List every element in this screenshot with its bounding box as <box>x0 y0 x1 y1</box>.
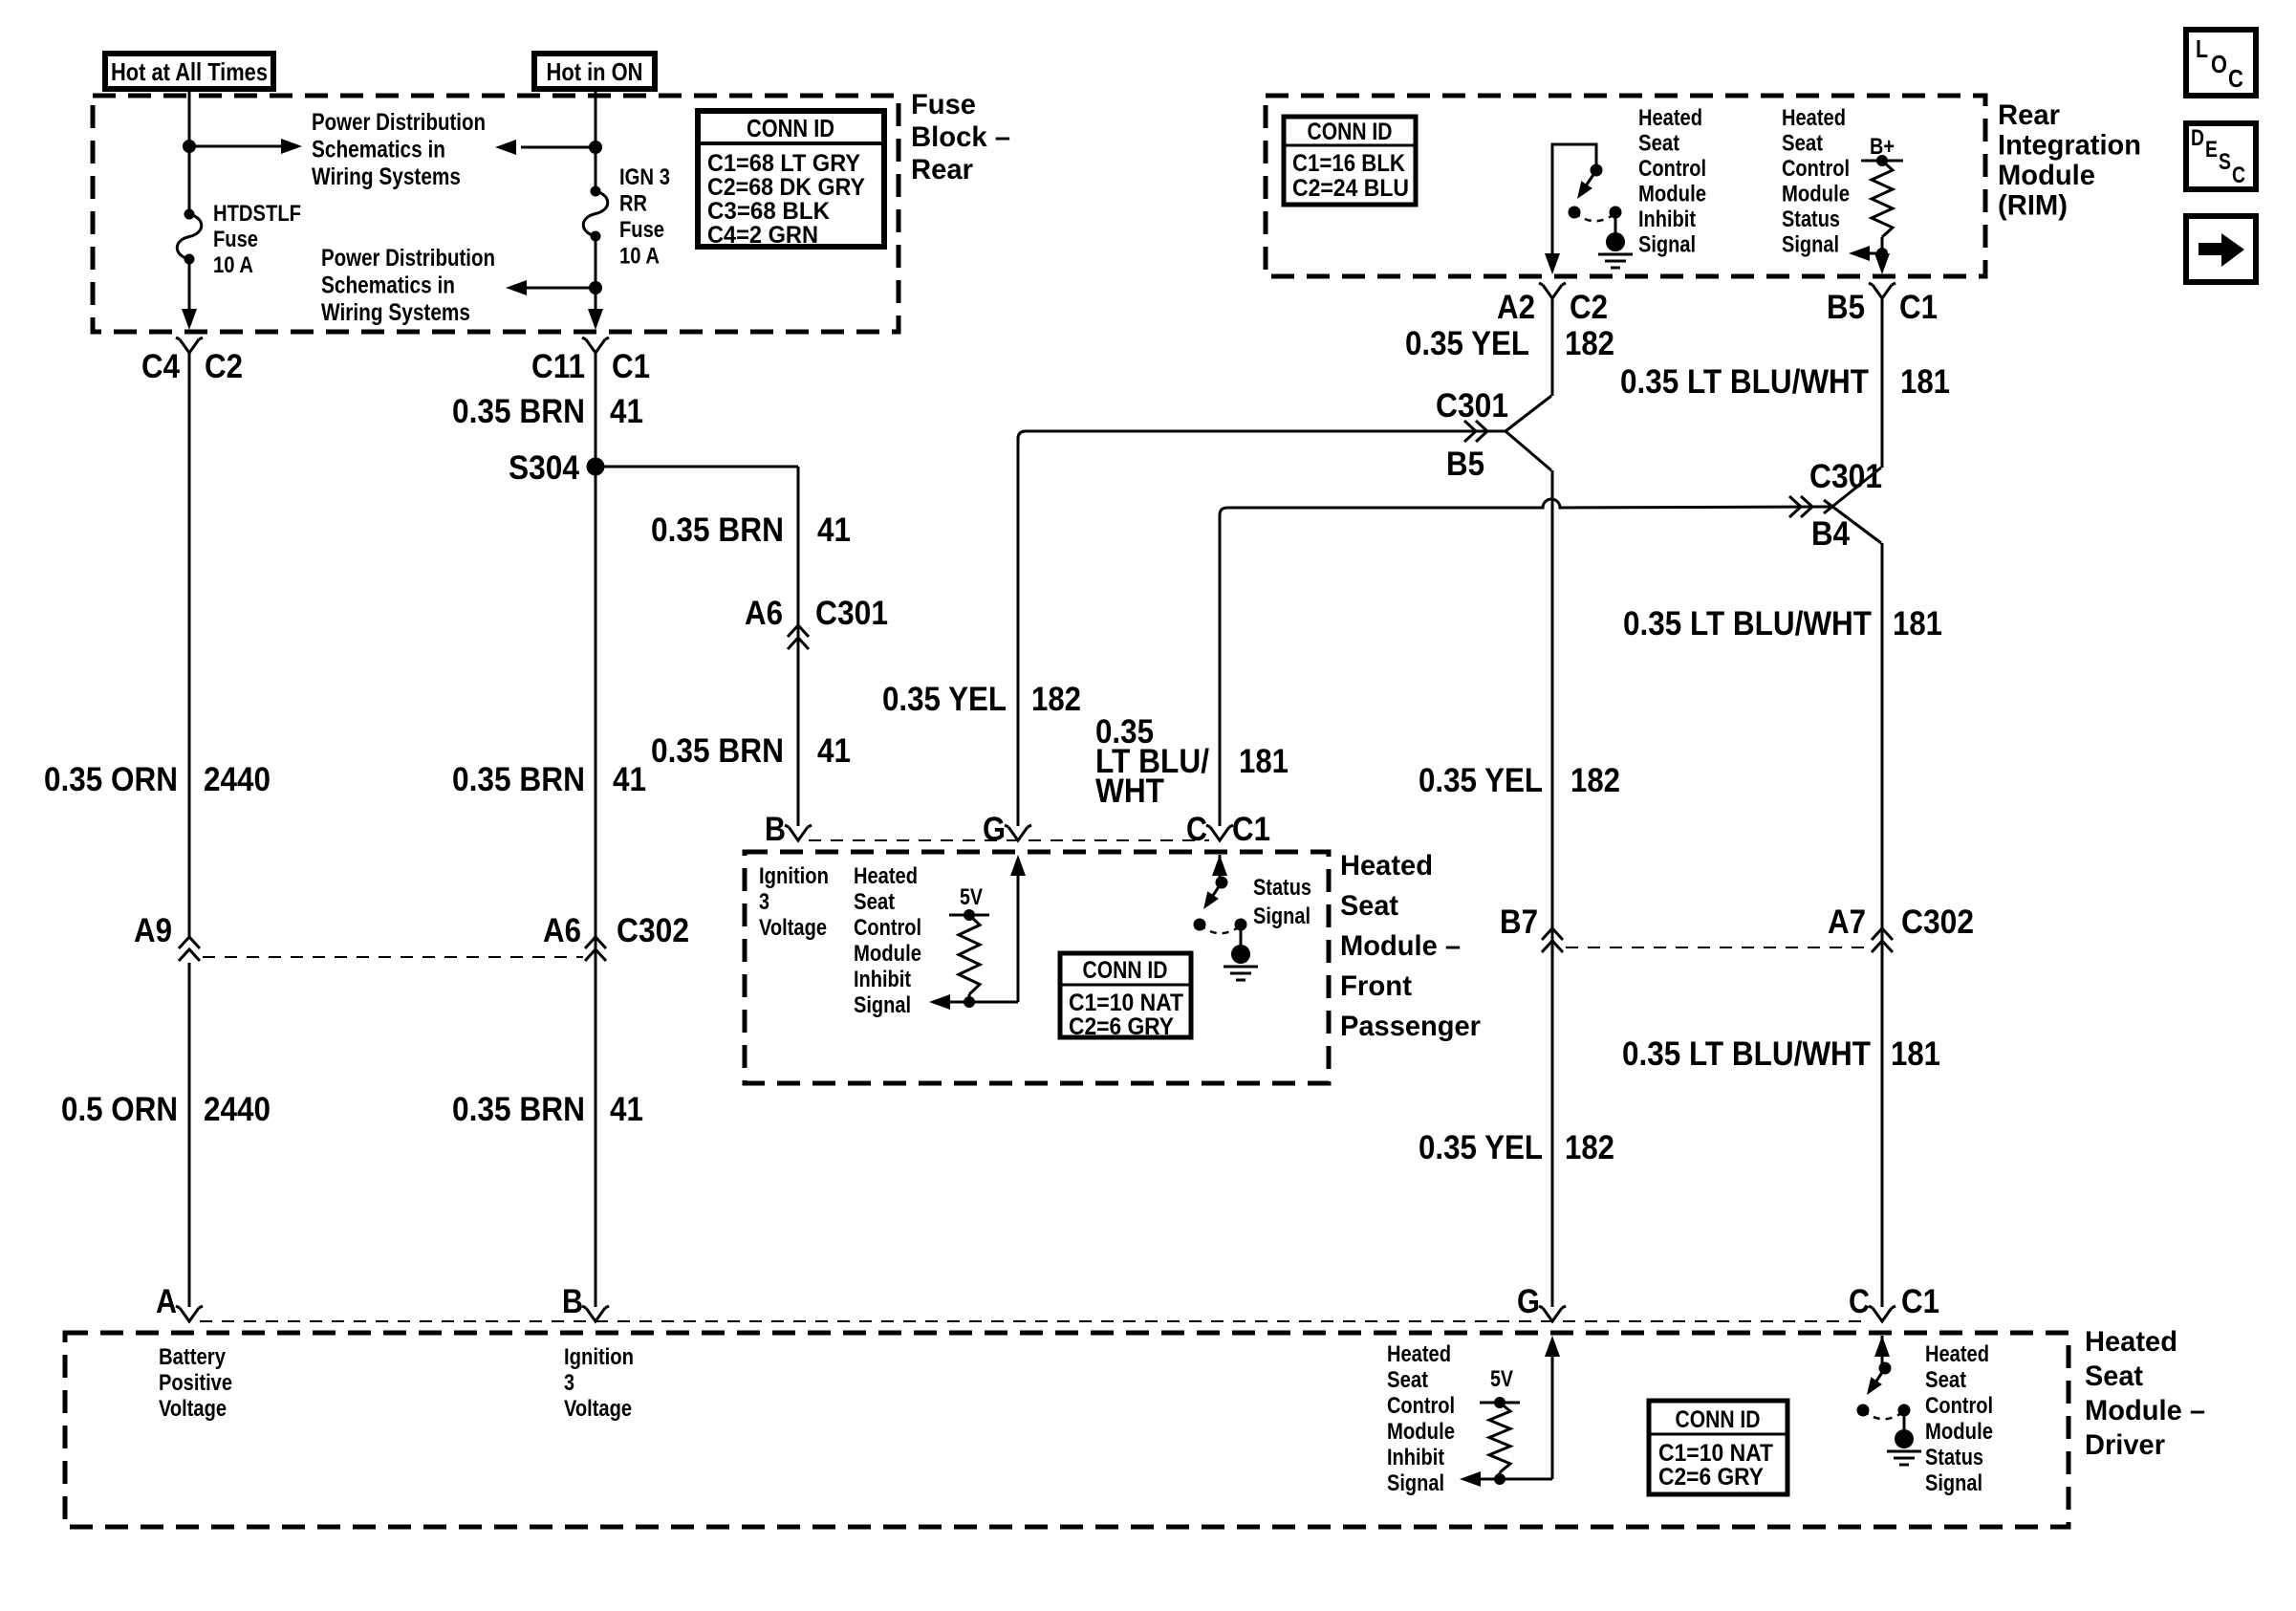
svg-text:C2=6 GRY: C2=6 GRY <box>1069 1013 1174 1040</box>
wire: ignition feed below fuse <box>595 236 597 316</box>
switch throw arc <box>1200 925 1241 933</box>
svg-text:C4: C4 <box>141 348 180 385</box>
passenger pin G <box>1008 827 1028 840</box>
wire: ignition feed from Hot in ON <box>595 89 597 191</box>
svg-text:C1: C1 <box>1899 289 1938 326</box>
svg-text:Control: Control <box>1782 156 1850 182</box>
svg-text:CONN ID: CONN ID <box>1083 957 1168 984</box>
svg-text:B: B <box>765 811 786 848</box>
svg-text:Power Distribution: Power Distribution <box>312 109 486 136</box>
svg-text:A6: A6 <box>543 912 581 949</box>
connector tie line C302 (left) <box>203 956 583 958</box>
junction node on ignition feed (lower) <box>589 281 602 294</box>
connector table CONN ID (RIM) <box>1284 117 1416 205</box>
svg-text:C2=6 GRY: C2=6 GRY <box>1658 1464 1764 1491</box>
svg-text:Positive: Positive <box>159 1370 232 1396</box>
wire 181 LT BLU/WHT: RIM C1 down to C301 B4 fan <box>1881 297 1884 468</box>
svg-text:C2=68 DK GRY: C2=68 DK GRY <box>707 174 865 201</box>
wire 181 LT BLU/WHT: C301 B4 down to driver pin C <box>1881 543 1884 1307</box>
ground (RIM inhibit) <box>1606 232 1625 251</box>
svg-text:41: 41 <box>610 393 643 430</box>
svg-text:WHT: WHT <box>1095 773 1164 810</box>
svg-text:(RIM): (RIM) <box>1998 190 2068 222</box>
svg-text:Module: Module <box>854 941 921 967</box>
svg-text:0.35 BRN: 0.35 BRN <box>452 393 585 430</box>
svg-text:Module: Module <box>1638 182 1706 207</box>
svg-text:CONN ID: CONN ID <box>1676 1406 1761 1433</box>
svg-text:0.35 YEL: 0.35 YEL <box>1405 325 1529 362</box>
svg-text:0.35 BRN: 0.35 BRN <box>452 761 585 798</box>
svg-text:S304: S304 <box>509 449 579 487</box>
svg-text:Module: Module <box>1998 160 2095 191</box>
svg-text:Wiring Systems: Wiring Systems <box>321 299 470 326</box>
svg-text:Signal: Signal <box>854 992 911 1018</box>
svg-text:181: 181 <box>1893 605 1942 642</box>
svg-text:Heated: Heated <box>1387 1341 1451 1367</box>
connector tie line C302 (right) <box>1566 947 1868 948</box>
svg-text:Fuse: Fuse <box>911 89 976 120</box>
svg-text:Seat: Seat <box>2085 1361 2143 1392</box>
svg-text:181: 181 <box>1239 743 1289 780</box>
connector pin A2/C2 (RIM) <box>1543 285 1562 298</box>
svg-text:Power Distribution: Power Distribution <box>321 245 495 272</box>
svg-text:C3=68 BLK: C3=68 BLK <box>707 198 830 225</box>
svg-text:C: C <box>1849 1283 1870 1320</box>
svg-text:41: 41 <box>817 512 851 549</box>
svg-text:0.35 BRN: 0.35 BRN <box>651 732 784 770</box>
svg-text:Status: Status <box>1782 207 1840 232</box>
svg-text:RR: RR <box>619 191 647 217</box>
inhibit switch (RIM) <box>1552 144 1596 260</box>
fuse HTDSTLF 10 A <box>184 209 195 220</box>
svg-text:Front: Front <box>1340 970 1412 1002</box>
status signal arrow (left) <box>1865 252 1882 255</box>
wire: inhibit node to pin G arrow <box>1017 868 1020 1002</box>
wire: power distribution reference arrow (right) <box>189 145 283 148</box>
fuse IGN 3 RR 10 A <box>591 186 601 197</box>
driver pin C / C1 <box>1873 1308 1892 1321</box>
svg-text:0.35 BRN: 0.35 BRN <box>452 1091 585 1128</box>
connector tie line (driver module top) <box>200 1320 1870 1322</box>
svg-text:L: L <box>2196 34 2208 63</box>
svg-text:Seat: Seat <box>1782 131 1823 157</box>
svg-text:Inhibit: Inhibit <box>854 967 911 992</box>
svg-text:C1: C1 <box>1901 1283 1939 1320</box>
svg-text:Status: Status <box>1253 875 1311 901</box>
svg-text:Hot in ON: Hot in ON <box>547 57 643 86</box>
connector pin C4/C2 (fuse block output) <box>180 339 199 353</box>
connector table CONN ID (passenger module) <box>1060 953 1191 1037</box>
svg-text:Heated: Heated <box>1925 1341 1989 1367</box>
svg-text:Module: Module <box>1387 1419 1455 1445</box>
driver pin G <box>1543 1308 1562 1321</box>
svg-text:B4: B4 <box>1811 515 1850 553</box>
svg-text:Block –: Block – <box>911 121 1010 153</box>
svg-text:3: 3 <box>759 889 769 915</box>
svg-text:182: 182 <box>1570 762 1620 799</box>
wire 41 BRN: fuse block C1 to S304 <box>595 352 597 1307</box>
driver pin A <box>180 1308 199 1321</box>
svg-text:Module –: Module – <box>1340 930 1461 962</box>
svg-text:10 A: 10 A <box>619 244 660 270</box>
svg-text:Control: Control <box>1638 156 1706 182</box>
svg-text:A2: A2 <box>1497 289 1535 326</box>
wire 182 YEL: passenger pin G up and over to C301 <box>1018 431 1505 826</box>
LOC icon box <box>2186 30 2256 96</box>
heated seat module - driver box <box>65 1333 2069 1527</box>
svg-text:41: 41 <box>613 761 646 798</box>
svg-text:Voltage: Voltage <box>564 1396 632 1422</box>
svg-text:181: 181 <box>1900 363 1950 401</box>
svg-text:S: S <box>2219 149 2231 175</box>
inline connector C302 pin A9/A6 tie <box>179 937 200 948</box>
svg-text:Schematics in: Schematics in <box>312 137 445 163</box>
svg-text:182: 182 <box>1565 325 1614 362</box>
svg-text:2440: 2440 <box>204 761 271 798</box>
inhibit signal arrow (left) <box>946 1001 1018 1004</box>
svg-text:B5: B5 <box>1446 446 1484 483</box>
svg-text:O: O <box>2211 50 2227 78</box>
svg-text:Seat: Seat <box>854 889 895 915</box>
svg-text:Inhibit: Inhibit <box>1638 207 1696 232</box>
svg-text:CONN ID: CONN ID <box>1308 119 1393 145</box>
svg-text:Seat: Seat <box>1925 1367 1966 1393</box>
svg-text:C1: C1 <box>1232 811 1270 848</box>
svg-text:Inhibit: Inhibit <box>1387 1445 1444 1470</box>
svg-text:Control: Control <box>1925 1393 1993 1419</box>
svg-text:C4=2 GRN: C4=2 GRN <box>707 222 818 249</box>
svg-text:Rear: Rear <box>1998 99 2060 131</box>
svg-text:B: B <box>562 1283 583 1320</box>
svg-text:Signal: Signal <box>1782 232 1839 258</box>
svg-text:Hot at All Times: Hot at All Times <box>111 57 268 86</box>
svg-text:C1=10 NAT: C1=10 NAT <box>1069 990 1183 1016</box>
svg-text:Module –: Module – <box>2085 1395 2205 1426</box>
svg-text:Fuse: Fuse <box>619 217 664 243</box>
svg-text:Driver: Driver <box>2085 1429 2165 1461</box>
rear integration module box <box>1266 96 1985 276</box>
svg-text:Control: Control <box>1387 1393 1455 1419</box>
ground (driver status) <box>1895 1429 1914 1448</box>
svg-text:Schematics in: Schematics in <box>321 272 455 299</box>
svg-text:0.5 ORN: 0.5 ORN <box>61 1091 178 1128</box>
svg-text:B5: B5 <box>1827 289 1865 326</box>
driver pin B <box>586 1308 605 1321</box>
svg-text:HTDSTLF: HTDSTLF <box>213 201 301 227</box>
inline connector C301 pin B4 (male chevrons) <box>1801 496 1812 517</box>
node label box "Hot in ON" <box>534 54 655 89</box>
inline connector C302 pin A7 <box>1872 928 1893 940</box>
forward arrow icon box <box>2186 216 2256 282</box>
svg-text:0.35 LT BLU/WHT: 0.35 LT BLU/WHT <box>1623 605 1872 642</box>
svg-text:Voltage: Voltage <box>759 915 827 941</box>
wire: power distribution reference arrow (left, lower) <box>525 287 596 290</box>
wire: battery feed to connector C2 <box>188 259 191 316</box>
connector pin C11/C1 (fuse block output) <box>586 339 605 353</box>
svg-text:Ignition: Ignition <box>759 863 829 889</box>
svg-text:C302: C302 <box>617 912 689 949</box>
svg-text:Passenger: Passenger <box>1340 1011 1481 1042</box>
svg-text:0.35 BRN: 0.35 BRN <box>651 512 784 549</box>
svg-text:10 A: 10 A <box>213 252 253 278</box>
svg-text:C: C <box>2228 64 2243 93</box>
node under resistor (driver) <box>1494 1473 1505 1485</box>
inline connector C301 pin B5 (male chevrons) <box>1476 421 1487 442</box>
svg-text:D: D <box>2191 125 2204 151</box>
svg-text:Ignition: Ignition <box>564 1344 634 1370</box>
inline connector C302 pin B7 <box>1542 928 1563 940</box>
svg-text:C: C <box>1186 811 1207 848</box>
splice S304 <box>587 458 605 476</box>
svg-text:C1=16 BLK: C1=16 BLK <box>1292 150 1405 177</box>
svg-text:0.35 YEL: 0.35 YEL <box>882 681 1007 718</box>
wire 2440 ORN: C2 to driver module pin A <box>188 352 191 938</box>
svg-text:C1=10 NAT: C1=10 NAT <box>1658 1440 1773 1467</box>
status switch (passenger) <box>1212 855 1227 876</box>
wire: S304 branch to A6 C301 <box>596 466 798 468</box>
wire 182 YEL: C301 fan down to driver pin G <box>1551 470 1554 1307</box>
svg-text:Heated: Heated <box>1782 105 1846 131</box>
svg-text:C1=68 LT GRY: C1=68 LT GRY <box>707 150 860 177</box>
svg-text:0.35 YEL: 0.35 YEL <box>1419 762 1543 799</box>
svg-text:2440: 2440 <box>204 1091 271 1128</box>
wire: ignition feed reference arrow (left, upper) <box>521 146 596 149</box>
svg-text:182: 182 <box>1565 1129 1614 1166</box>
svg-text:C1: C1 <box>612 348 650 385</box>
DESC icon box <box>2186 123 2256 189</box>
svg-text:41: 41 <box>610 1091 643 1128</box>
passenger pin C / C1 <box>1210 827 1229 840</box>
svg-text:0.35 LT BLU/WHT: 0.35 LT BLU/WHT <box>1622 1035 1871 1073</box>
svg-text:182: 182 <box>1031 681 1081 718</box>
svg-text:Module: Module <box>1925 1419 1993 1445</box>
svg-text:Module: Module <box>1782 182 1850 207</box>
node on status line <box>1876 248 1888 259</box>
svg-text:Control: Control <box>854 915 921 941</box>
svg-text:A9: A9 <box>134 912 172 949</box>
wire: driver inhibit node up to pin G <box>1551 1349 1554 1479</box>
node under resistor <box>964 996 975 1008</box>
svg-text:Heated: Heated <box>854 863 918 889</box>
svg-text:Integration: Integration <box>1998 130 2141 162</box>
svg-text:Seat: Seat <box>1340 890 1398 922</box>
wire 181 LT BLU/WHT: passenger pin C up and over to C301 B4 (with hop) <box>1220 499 1831 826</box>
fuse block - rear module box <box>93 96 899 332</box>
svg-text:E: E <box>2205 137 2218 163</box>
RIM pin C1 arrow <box>1874 253 1890 274</box>
connector tie line (passenger module top) <box>809 839 1209 841</box>
svg-text:G: G <box>1517 1283 1540 1320</box>
svg-text:C2: C2 <box>1570 289 1608 326</box>
connector table CONN ID (fuse block rear) <box>698 111 884 247</box>
svg-text:A7: A7 <box>1828 903 1866 941</box>
svg-text:0.35 LT BLU/WHT: 0.35 LT BLU/WHT <box>1620 363 1869 401</box>
svg-text:C301: C301 <box>1436 387 1508 425</box>
svg-text:G: G <box>983 811 1006 848</box>
svg-text:5V: 5V <box>1490 1366 1513 1392</box>
connector table CONN ID (driver module) <box>1649 1401 1787 1494</box>
status switch (driver) <box>1874 1336 1890 1357</box>
inhibit signal arrow (driver) <box>1477 1478 1552 1481</box>
svg-text:Fuse: Fuse <box>213 227 258 252</box>
svg-text:C11: C11 <box>531 348 585 385</box>
svg-text:Signal: Signal <box>1253 903 1310 929</box>
node label box "Hot at All Times" <box>105 54 273 89</box>
wire 182 YEL: RIM C2 down to C301 fan <box>1551 297 1554 396</box>
svg-text:5V: 5V <box>960 884 983 910</box>
svg-text:Seat: Seat <box>1387 1367 1428 1393</box>
svg-text:A: A <box>156 1283 177 1320</box>
passenger pin B <box>789 827 808 840</box>
junction node on ignition feed (upper) <box>589 141 602 154</box>
connector fan-out C301/B4 (crossed) <box>1824 468 1881 513</box>
svg-text:0.35 ORN: 0.35 ORN <box>44 761 178 798</box>
junction node on battery feed <box>183 140 196 153</box>
svg-text:C2: C2 <box>205 348 243 385</box>
svg-text:IGN 3: IGN 3 <box>619 164 670 190</box>
heated seat module - front passenger box <box>745 852 1329 1083</box>
ground (passenger status) <box>1231 945 1250 964</box>
svg-text:Heated: Heated <box>1638 105 1702 131</box>
svg-text:B7: B7 <box>1500 903 1538 941</box>
svg-text:3: 3 <box>564 1370 574 1396</box>
svg-text:Signal: Signal <box>1387 1470 1444 1496</box>
svg-text:C: C <box>2232 163 2245 188</box>
svg-text:CONN ID: CONN ID <box>747 114 834 142</box>
svg-text:Signal: Signal <box>1638 232 1696 258</box>
svg-text:Voltage: Voltage <box>159 1396 227 1422</box>
svg-text:C302: C302 <box>1901 903 1974 941</box>
svg-text:C2=24 BLU: C2=24 BLU <box>1292 175 1409 202</box>
svg-text:0.35 YEL: 0.35 YEL <box>1419 1129 1543 1166</box>
svg-text:A6: A6 <box>745 595 783 632</box>
svg-text:181: 181 <box>1891 1035 1940 1073</box>
RIM pin C2 arrow <box>1545 253 1560 274</box>
svg-text:Battery: Battery <box>159 1344 227 1370</box>
svg-text:Signal: Signal <box>1925 1470 1982 1496</box>
connector pin B5/C1 (RIM) <box>1873 285 1892 298</box>
wire: battery feed from Hot at All Times <box>188 89 191 214</box>
svg-text:C301: C301 <box>815 595 888 632</box>
svg-text:41: 41 <box>817 732 851 770</box>
svg-text:Rear: Rear <box>911 154 973 185</box>
svg-text:Seat: Seat <box>1638 131 1679 157</box>
inline connector C301 pin A6 <box>788 625 809 637</box>
svg-text:Status: Status <box>1925 1445 1983 1470</box>
connector fan-out C301/B5 <box>1505 396 1551 431</box>
svg-text:Heated: Heated <box>2085 1326 2177 1358</box>
svg-text:Heated: Heated <box>1340 850 1433 882</box>
svg-text:Wiring Systems: Wiring Systems <box>312 163 461 190</box>
